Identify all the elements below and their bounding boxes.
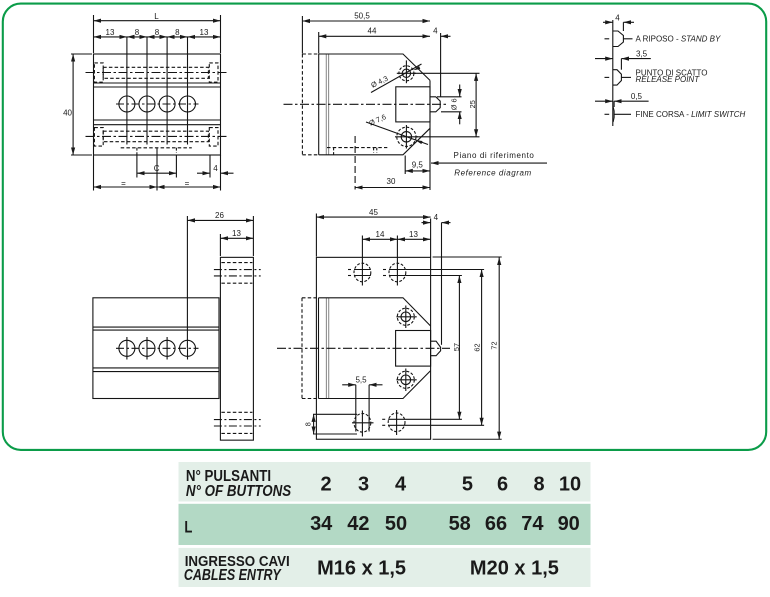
dim diam6 [437, 96, 462, 98]
button plunger [431, 341, 441, 356]
dim 13 [219, 234, 221, 256]
green frame [3, 4, 766, 450]
svg-text:57: 57 [452, 343, 461, 351]
cap limit switch [613, 107, 614, 121]
dim 3,5 [620, 59, 622, 70]
svg-text:CABLES ENTRY: CABLES ENTRY [184, 566, 282, 584]
slot hole BR [382, 410, 405, 435]
leader 4,3 [371, 64, 422, 93]
row 3 background [179, 548, 591, 587]
svg-text:5,5: 5,5 [355, 375, 367, 384]
VIEW-D top view with bracket [93, 216, 261, 440]
dim 4 [430, 219, 432, 258]
svg-text:C: C [154, 164, 160, 173]
svg-text:FINE CORSA - LIMIT SWITCH: FINE CORSA - LIMIT SWITCH [636, 110, 746, 119]
slot hole TR [383, 263, 406, 282]
svg-text:6: 6 [497, 473, 508, 495]
svg-text:25: 25 [468, 100, 477, 108]
dim 8 [313, 413, 357, 415]
cable entry ticks [136, 148, 138, 155]
buttons centerline [116, 347, 199, 349]
dim 4 stand-by [440, 33, 442, 97]
svg-text:2: 2 [320, 473, 331, 495]
reference plane arrow [431, 162, 547, 164]
dashed cover back [302, 54, 318, 155]
svg-text:0,5: 0,5 [631, 92, 643, 101]
dim 14 13 [362, 238, 397, 240]
dim 26 [186, 216, 188, 348]
bottom dashed detail [327, 147, 387, 149]
upper hole [397, 60, 416, 83]
dim 57 [458, 276, 460, 420]
svg-text:45: 45 [369, 208, 378, 217]
svg-text:72: 72 [490, 341, 499, 349]
row 2 values [310, 513, 580, 535]
dim 40 [71, 53, 92, 55]
svg-text:L: L [184, 518, 192, 537]
svg-text:N° OF BUTTONS: N° OF BUTTONS [186, 483, 292, 500]
VIEW-E rear mounting view [277, 214, 502, 440]
dim 5,5 [342, 384, 356, 386]
svg-text:74: 74 [521, 513, 544, 535]
contact block [396, 331, 431, 367]
cap release point [613, 70, 622, 85]
buttons centerline [116, 103, 199, 105]
upper cover dashed slot [94, 63, 218, 82]
hole centre verticals top [361, 236, 363, 286]
dim 30 [355, 187, 430, 189]
svg-text:66: 66 [485, 513, 507, 535]
svg-text:=: = [185, 179, 190, 188]
svg-text:9,5: 9,5 [412, 161, 424, 170]
panel line [612, 20, 614, 126]
contact block [396, 87, 430, 122]
svg-text:90: 90 [558, 513, 580, 535]
VIEW-C travel positions [595, 20, 651, 126]
body left edge [318, 298, 320, 399]
bottom dashed row [121, 147, 192, 149]
VIEW-A front view [71, 15, 234, 191]
button B4 [180, 96, 196, 112]
dim 0,5 [613, 101, 615, 107]
button B4 [180, 340, 196, 356]
rails [93, 326, 219, 328]
face line + extension [429, 80, 431, 190]
bracket plate [220, 257, 253, 440]
svg-text:42: 42 [347, 513, 369, 535]
svg-text:50: 50 [385, 513, 407, 535]
svg-text:RELEASE POINT: RELEASE POINT [636, 75, 701, 84]
svg-text:Ø 6: Ø 6 [450, 98, 459, 110]
button B2 [139, 96, 155, 112]
TABLE [179, 462, 591, 587]
upper button [396, 306, 416, 329]
dim C [136, 155, 138, 178]
svg-text:Piano di riferimento: Piano di riferimento [454, 151, 535, 160]
svg-text:M20 x 1,5: M20 x 1,5 [470, 557, 559, 579]
dim 9,5 [404, 156, 406, 175]
svg-text:4: 4 [434, 213, 439, 222]
lower hole [395, 125, 418, 149]
svg-text:Reference diagram: Reference diagram [454, 169, 531, 178]
button construction lines [126, 37, 128, 145]
row 1 background [179, 462, 591, 502]
svg-text:5: 5 [462, 473, 473, 495]
dim 62 [481, 270, 483, 426]
svg-text:40: 40 [63, 109, 72, 118]
svg-text:4: 4 [213, 164, 218, 173]
svg-text:4: 4 [433, 27, 438, 36]
dim 13-8-8-8-13 [94, 36, 127, 38]
svg-text:3: 3 [358, 473, 369, 495]
lower cover dashed slot [94, 128, 218, 147]
svg-text:L: L [154, 12, 159, 21]
svg-text:10: 10 [559, 473, 581, 495]
row 2 background [179, 504, 591, 545]
lower centerline [86, 135, 229, 137]
dim 45 [315, 214, 317, 257]
body outline [93, 298, 219, 399]
svg-text:50,5: 50,5 [354, 12, 370, 21]
svg-text:Ø 7,6: Ø 7,6 [367, 112, 387, 127]
mounting plate [316, 257, 430, 439]
slot hole TL [348, 263, 371, 282]
svg-text:30: 30 [387, 177, 396, 186]
dim 25 [414, 72, 480, 74]
grey seam [325, 54, 327, 155]
button B3 [159, 340, 175, 356]
dim L [93, 15, 95, 53]
svg-text:26: 26 [215, 211, 224, 220]
body outline [319, 298, 431, 399]
button B1 [119, 340, 135, 356]
svg-text:8: 8 [155, 28, 160, 37]
button B2 [139, 340, 155, 356]
svg-text:13: 13 [232, 229, 241, 238]
grey seam [325, 298, 327, 399]
row 1 values [320, 473, 581, 495]
svg-text:8: 8 [175, 28, 180, 37]
svg-text:44: 44 [368, 27, 377, 36]
leader 7,6 [366, 122, 428, 145]
centerline [284, 103, 449, 105]
slot hole BL vertical [352, 385, 374, 437]
dim 44 [318, 32, 320, 54]
body outline [319, 54, 430, 155]
svg-text:8: 8 [304, 422, 313, 426]
svg-text:A RIPOSO - STAND BY: A RIPOSO - STAND BY [636, 35, 721, 44]
svg-text:M16 x 1,5: M16 x 1,5 [317, 557, 406, 579]
button plunger [430, 97, 440, 112]
svg-text:13: 13 [200, 28, 209, 37]
svg-text:4: 4 [395, 473, 407, 495]
svg-text:13: 13 [409, 230, 418, 239]
cap stand-by [613, 31, 624, 47]
body outline [94, 54, 221, 155]
body left edge [318, 54, 320, 155]
dim 50,5 [301, 16, 303, 54]
dim equal halves [93, 155, 95, 191]
dim 4 [209, 155, 211, 178]
upper rail lines [94, 82, 221, 84]
lower rail lines [94, 119, 221, 121]
button B3 [159, 96, 175, 112]
svg-text:8: 8 [135, 28, 140, 37]
lower button [396, 369, 416, 392]
svg-text:3,5: 3,5 [636, 49, 648, 58]
upper centerline [86, 72, 229, 74]
body back dashed [302, 298, 319, 399]
svg-text:8: 8 [533, 473, 544, 495]
svg-text:4: 4 [615, 14, 620, 23]
bracket bottom detail [221, 412, 252, 433]
svg-text:13: 13 [106, 28, 115, 37]
right extension lines [406, 269, 484, 271]
centerline [277, 347, 450, 349]
gland centerline ext [354, 136, 356, 190]
button B1 [119, 96, 135, 112]
svg-text:=: = [121, 179, 126, 188]
svg-text:34: 34 [310, 513, 333, 535]
dim 72 [498, 257, 500, 439]
bracket top detail [221, 263, 252, 284]
row 3 values [317, 557, 559, 579]
svg-text:62: 62 [473, 343, 482, 351]
svg-text:58: 58 [449, 513, 471, 535]
svg-text:14: 14 [376, 230, 385, 239]
VIEW-B side view [284, 16, 548, 190]
dim 4 [622, 22, 624, 31]
